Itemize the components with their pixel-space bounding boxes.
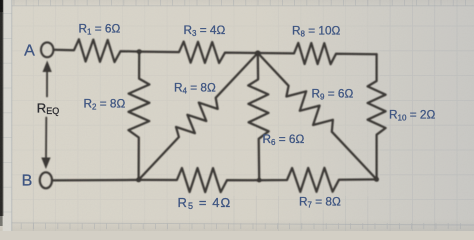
resistor R3 [139, 42, 258, 63]
resistor R10 [368, 54, 386, 179]
REQ arrowhead down [41, 158, 50, 170]
resistor R1 [54, 39, 140, 62]
node N3 [136, 178, 141, 183]
node N4 [257, 178, 261, 182]
terminal A [41, 42, 53, 57]
node N2 [255, 50, 260, 55]
left black border bar [3, 0, 12, 231]
top ruler line [5, 0, 474, 6]
node BR [374, 177, 379, 182]
resistor R7 [259, 168, 376, 192]
resistor R5 [139, 168, 260, 192]
resistor R6 [248, 53, 269, 180]
resistor R4 [139, 53, 258, 180]
resistor R8 [258, 43, 377, 64]
REQ arrow [46, 66, 48, 97]
REQ arrowhead up [43, 61, 52, 73]
resistor R2 [128, 52, 149, 180]
bottom ruler line [0, 223, 474, 229]
node N1 [137, 49, 142, 54]
resistor R9 [258, 53, 377, 179]
terminal B [40, 172, 52, 188]
wire B to N3 [52, 179, 138, 182]
